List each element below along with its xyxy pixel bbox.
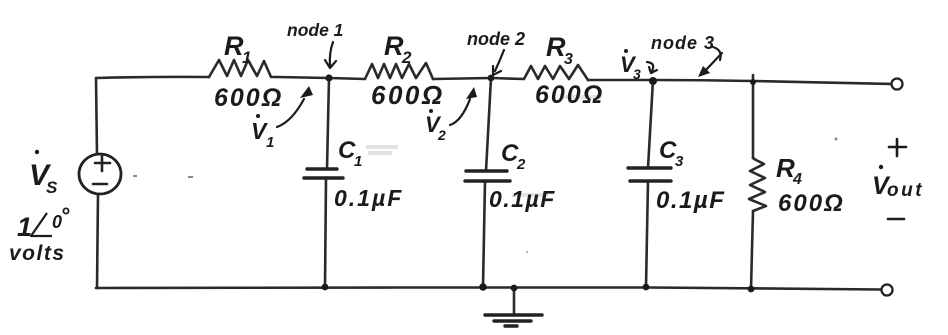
svg-text:2: 2 [437, 127, 446, 143]
svg-text:0.1µF: 0.1µF [334, 185, 403, 211]
svg-text:R: R [224, 31, 244, 61]
svg-text:3: 3 [564, 51, 573, 68]
svg-text:S: S [46, 178, 58, 197]
svg-text:R: R [546, 32, 566, 62]
svg-text:node 1: node 1 [287, 20, 343, 40]
svg-text:2: 2 [516, 156, 526, 173]
svg-text:R: R [384, 31, 404, 61]
svg-text:1: 1 [354, 153, 362, 170]
svg-text:4: 4 [792, 171, 802, 188]
svg-text:node 2: node 2 [467, 29, 525, 49]
svg-text:out: out [887, 180, 924, 201]
svg-text:3: 3 [675, 153, 684, 170]
svg-text:3: 3 [633, 66, 641, 82]
svg-text:600Ω: 600Ω [535, 81, 604, 109]
svg-text:1: 1 [266, 134, 274, 151]
svg-text:0: 0 [52, 212, 62, 232]
svg-text:2: 2 [401, 48, 412, 67]
svg-text:1: 1 [17, 212, 32, 242]
svg-text:0.1µF: 0.1µF [656, 187, 725, 214]
svg-text:600Ω: 600Ω [214, 84, 283, 112]
svg-text:node 3: node 3 [651, 33, 715, 53]
svg-text:volts: volts [9, 242, 66, 265]
svg-text:600Ω: 600Ω [778, 190, 845, 217]
svg-text:600Ω: 600Ω [371, 80, 445, 110]
svg-text:1: 1 [242, 48, 251, 67]
svg-text:0.1µF: 0.1µF [489, 186, 556, 212]
